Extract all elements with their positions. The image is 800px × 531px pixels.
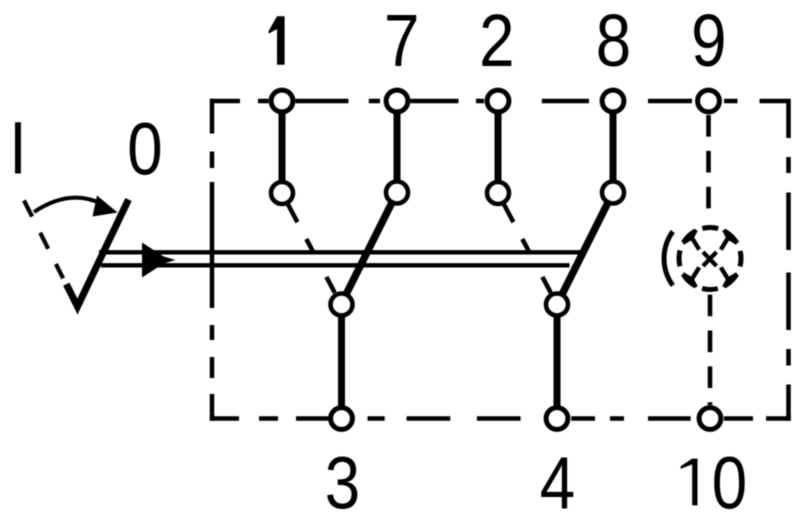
moving contact pole A alternate position (dashed, 3-1) <box>287 203 335 293</box>
label terminal 1 <box>269 16 285 64</box>
label terminal 9 <box>691 0 726 82</box>
wire: stub terminal 8 to contact <box>610 112 617 182</box>
terminal 10 <box>699 408 721 430</box>
svg-text:9: 9 <box>691 0 726 82</box>
switch housing dashed border: bottom edge <box>210 416 791 421</box>
moving contact pole B alternate position (dashed, 4-2) <box>503 203 551 293</box>
moving contact pole A (closed, 3-7) <box>346 203 392 295</box>
linkage direction arrow <box>142 243 176 278</box>
svg-text:3: 3 <box>325 442 360 525</box>
contact circle under terminal 7 <box>386 182 408 204</box>
label terminal 10 <box>681 459 698 506</box>
wire: lamp to terminal 10 (dashed) <box>708 295 713 405</box>
indicator lamp: reflector arc <box>664 232 673 286</box>
switch housing dashed border: right edge <box>786 99 791 421</box>
terminal 3 <box>331 408 353 430</box>
svg-text:0: 0 <box>712 442 747 525</box>
label terminal 3 <box>325 442 360 525</box>
svg-text:0: 0 <box>127 108 162 191</box>
indicator lamp L: dashed bulb circle <box>679 228 741 290</box>
svg-text:2: 2 <box>479 0 514 82</box>
moving contact pole B (closed, 4-8) <box>562 203 608 295</box>
common contact circle pole B <box>546 294 568 316</box>
terminal 2 <box>487 90 509 112</box>
wire: stub terminal 7 to contact <box>394 112 401 182</box>
terminal 1 <box>271 90 293 112</box>
actuator lever dashed arm (position I) <box>24 201 63 279</box>
wire: stub terminal 1 to contact <box>279 112 286 183</box>
common contact circle pole A <box>331 294 353 316</box>
svg-text:I: I <box>9 107 27 190</box>
label terminal 4 <box>540 442 575 525</box>
label terminal 7 <box>384 0 419 82</box>
wire: terminal 9 to lamp (dashed) <box>706 115 711 222</box>
mechanical linkage bar (double line) <box>99 252 583 265</box>
svg-text:8: 8 <box>596 0 631 82</box>
indicator lamp: illumination arrows <box>683 230 738 288</box>
contact circle under terminal 1 <box>271 182 293 204</box>
contact circle under terminal 2 <box>487 182 509 204</box>
svg-text:7: 7 <box>384 0 419 82</box>
svg-text:4: 4 <box>540 442 575 525</box>
actuation direction arc arrow <box>34 198 102 212</box>
contact circle under terminal 8 <box>602 182 624 204</box>
switch housing dashed border: left edge <box>210 99 215 421</box>
switch housing dashed border: top edge <box>210 99 787 104</box>
label terminal 2 <box>479 0 514 82</box>
label terminal 8 <box>596 0 631 82</box>
wire: common pole B to terminal 4 <box>554 316 561 407</box>
terminal 4 <box>546 408 568 430</box>
wire: stub terminal 2 to contact <box>495 112 502 183</box>
label position I <box>9 107 27 190</box>
terminal 8 <box>602 90 624 112</box>
terminal 7 <box>386 90 408 112</box>
wire: common pole A to terminal 3 <box>338 316 345 407</box>
actuator lever solid arm (position 0) with vertex stub <box>66 200 128 307</box>
indicator lamp: center cross <box>703 252 717 266</box>
label position 0 <box>127 108 162 191</box>
terminal 9 <box>698 90 720 112</box>
